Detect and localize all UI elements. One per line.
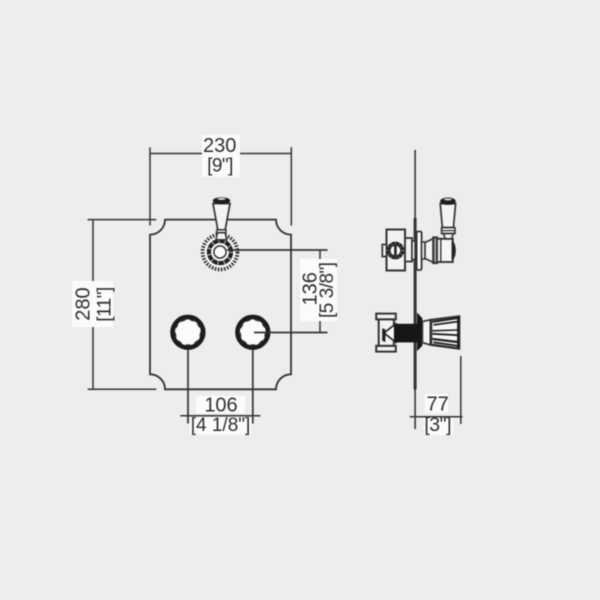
pipe through wall (black) <box>394 324 417 343</box>
leader from left knurled circle (vertical) <box>187 340 189 424</box>
lever handle side: collar <box>442 228 455 234</box>
hub flange ring <box>433 238 437 264</box>
lever handle side: body <box>440 204 455 228</box>
screw slot <box>394 245 397 256</box>
lever handle front: cap <box>213 197 230 204</box>
dimension 230 extension line right <box>290 147 292 225</box>
dimension 77 line <box>410 416 463 418</box>
text mask 230 <box>202 135 240 177</box>
stem neck side <box>422 242 425 259</box>
rosette outer knurled ring <box>203 235 238 270</box>
svg-text:230: 230 <box>203 135 236 157</box>
rosette edge-on <box>417 232 422 271</box>
flange cone on wall (black) <box>417 312 422 351</box>
hub cylinder <box>437 239 453 262</box>
rosette inner circle <box>214 246 226 258</box>
lower fitting: triangle <box>384 324 396 342</box>
svg-text:[4 1/8"]: [4 1/8"] <box>191 415 251 436</box>
dimension 280 line <box>92 220 94 390</box>
left knurled circle <box>170 315 206 351</box>
lower fitting: slot bar <box>382 328 385 342</box>
dimension 106 line <box>180 415 260 417</box>
side valve connector to wall <box>412 241 415 260</box>
lower fitting: top bar <box>376 314 396 320</box>
rosette middle ring <box>209 241 231 263</box>
svg-text:[3"]: [3"] <box>424 414 451 436</box>
right knurled circle <box>235 315 271 351</box>
text mask 136 <box>300 259 337 321</box>
text mask 3in <box>424 418 453 435</box>
side valve body upper <box>387 230 406 271</box>
dimension 230 line <box>150 153 291 155</box>
svg-text:106: 106 <box>204 395 237 417</box>
lower fitting: bottom bar <box>376 346 396 352</box>
lever handle side: taper <box>444 234 454 239</box>
dimension 230 extension line left <box>149 147 151 225</box>
text mask 77 <box>425 394 448 413</box>
screw head ring <box>388 243 402 257</box>
lower fitting: vertical body <box>379 319 394 345</box>
wall line (side view, thin upper) <box>414 150 416 218</box>
svg-text:280: 280 <box>72 287 94 320</box>
wall line (thin lower, 77 extension) <box>414 390 416 430</box>
knob knurl hatch lines <box>433 318 459 348</box>
wall line with plate edge (thick) <box>414 218 417 390</box>
leader from right knurled circle (vertical) <box>252 340 254 424</box>
rosette base <box>201 233 240 272</box>
svg-text:[9"]: [9"] <box>207 156 233 177</box>
dimension 136 line <box>319 250 321 333</box>
knob neck cone <box>422 320 430 345</box>
side valve body step <box>405 238 412 262</box>
text mask 106 <box>196 396 245 413</box>
svg-text:[5 3/8"]: [5 3/8"] <box>317 262 338 318</box>
svg-text:[11"]: [11"] <box>94 287 115 322</box>
dimension 77 extension right <box>460 356 462 424</box>
screw head inner <box>390 245 401 256</box>
lever handle front: body <box>213 204 230 230</box>
lever handle front: collar <box>217 230 226 233</box>
side valve left tab <box>382 245 386 257</box>
trim plate outline <box>150 220 291 390</box>
text mask 280 <box>72 281 113 327</box>
lever handle side: cap <box>440 198 456 205</box>
leader from right knurled circle (horizontal) <box>254 332 328 334</box>
dimension 280 extension line top <box>88 219 157 221</box>
stem cone side <box>425 239 433 263</box>
lever handle front: neck <box>216 233 227 240</box>
knurled knob <box>430 316 459 349</box>
text mask 4 1/8 <box>190 418 251 435</box>
leader from rosette center <box>227 249 328 251</box>
dimension 280 extension line bottom <box>88 388 157 390</box>
svg-text:77: 77 <box>426 394 448 416</box>
hub dark cap <box>452 241 456 260</box>
knob dark right band <box>457 316 460 348</box>
